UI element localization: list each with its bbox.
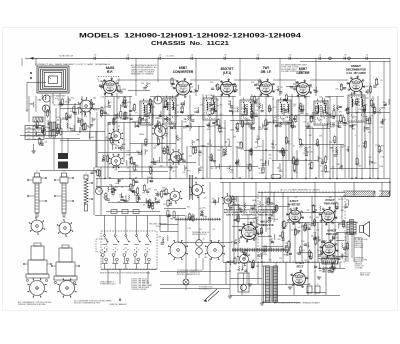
svg-text:100K: 100K (127, 102, 132, 104)
svg-text:5%: 5% (232, 207, 235, 209)
svg-text:470: 470 (141, 83, 144, 85)
svg-text:470: 470 (251, 118, 254, 120)
socket bottom view small A (31, 220, 43, 232)
svg-text:(I.F.1): (I.F.1) (223, 71, 231, 75)
svg-text:220: 220 (272, 107, 275, 109)
transformer T5 3rd IF trans (277, 100, 291, 124)
svg-text:5%: 5% (271, 147, 274, 149)
wire top bus second segment (300, 61, 390, 63)
svg-text:.01: .01 (277, 151, 280, 153)
svg-text:.01: .01 (269, 248, 272, 250)
svg-text:220: 220 (335, 88, 338, 90)
svg-text:.1: .1 (232, 198, 234, 200)
phono socket right (207, 242, 223, 258)
svg-text:.01: .01 (234, 241, 237, 243)
svg-text:220: 220 (218, 126, 221, 128)
svg-text:40: 40 (309, 284, 311, 286)
svg-text:LIMITER: LIMITER (297, 71, 311, 75)
ground antenna section (31, 150, 35, 152)
svg-text:.002: .002 (284, 223, 288, 225)
svg-text:5%: 5% (199, 155, 202, 157)
oscillator coil top (154, 96, 162, 104)
power cord to plug (206, 289, 217, 299)
wire bus y182 right (220, 182, 390, 184)
component clusters antenna block extra (33, 102, 34, 107)
component clusters band 3 (108, 187, 109, 193)
svg-text:.05: .05 (159, 55, 162, 57)
tuning gang rotor front (111, 131, 121, 141)
svg-text:.05: .05 (203, 198, 206, 200)
svg-text:1W: 1W (239, 208, 242, 210)
svg-text:.002: .002 (242, 258, 246, 260)
svg-text:680: 680 (209, 157, 212, 159)
wire bus y212 over switch (106, 211, 160, 213)
svg-text:220: 220 (181, 104, 184, 106)
svg-text:1MEG: 1MEG (257, 146, 263, 148)
oscillator section socket (171, 152, 182, 163)
extra power-area horizontal wires (258, 206, 290, 208)
svg-text:470: 470 (335, 237, 338, 239)
svg-text:100K: 100K (209, 126, 214, 128)
extra power-area vertical wires (233, 196, 235, 262)
output transformer T9 (347, 222, 356, 234)
svg-text:1W: 1W (213, 126, 216, 128)
svg-text:470: 470 (154, 190, 157, 192)
svg-text:RECT: RECT (297, 266, 304, 269)
svg-text:270K: 270K (128, 186, 133, 188)
svg-text:RECORD CHANGER MOTOR: RECORD CHANGER MOTOR (177, 273, 201, 276)
svg-text:POWER 117V 60CY: POWER 117V 60CY (100, 284, 117, 286)
svg-text:680: 680 (328, 117, 331, 119)
switch wafer wires to bus (104, 216, 106, 235)
svg-text:.002: .002 (115, 183, 119, 185)
svg-text:220: 220 (135, 165, 138, 167)
extra mid-band vertical wires (107, 122, 109, 178)
speaker plug P2 (350, 220, 354, 235)
svg-text:PWR AMP: PWR AMP (324, 203, 336, 206)
antenna terminals (30, 72, 32, 74)
svg-text:SWITCH SHOWN IN A.C. POSITION: SWITCH SHOWN IN A.C. POSITION AS VIEWED … (100, 271, 151, 274)
transformer T3 1st IF trans (203, 98, 217, 120)
svg-text:5%: 5% (77, 134, 80, 136)
svg-text:680: 680 (172, 87, 175, 89)
svg-text:270K: 270K (262, 254, 267, 256)
svg-text:PLUG (AC-DC): PLUG (AC-DC) (199, 288, 211, 291)
svg-text:220: 220 (251, 82, 254, 84)
svg-text:.1: .1 (314, 271, 316, 273)
svg-text:6J5GT: 6J5GT (290, 199, 299, 203)
svg-text:ALL D.C. VOLTAGES MEASURED TO: ALL D.C. VOLTAGES MEASURED TO CHASSIS (280, 189, 320, 192)
loop antenna L1 (37, 66, 69, 93)
svg-text:1W: 1W (126, 151, 129, 153)
filter capacitor C60 (307, 286, 312, 293)
wire mid horizontal left (46, 131, 105, 133)
svg-text:1MEG: 1MEG (240, 252, 246, 254)
svg-text:CHASSIS No. 11C21: CHASSIS No. 11C21 (151, 41, 229, 47)
svg-text:.01: .01 (34, 139, 37, 141)
component clusters band 2 (36, 122, 38, 128)
svg-text:680: 680 (120, 178, 123, 180)
svg-text:5%: 5% (342, 207, 345, 209)
svg-text:.01: .01 (305, 115, 308, 117)
svg-text:5%: 5% (317, 250, 320, 252)
svg-text:.01: .01 (136, 126, 139, 128)
svg-text:.1: .1 (146, 194, 148, 196)
svg-text:.01: .01 (319, 55, 322, 57)
svg-text:100K: 100K (362, 143, 367, 145)
svg-text:.1: .1 (222, 149, 224, 151)
svg-text:470: 470 (123, 144, 126, 146)
svg-text:1W: 1W (182, 172, 185, 174)
spoked socket left of tone note (224, 196, 232, 204)
tube V3 6SG7GT (221, 82, 234, 95)
extra mid-band horizontal wires (60, 108, 100, 110)
svg-text:220: 220 (157, 122, 160, 124)
chassis hatch strip far right (379, 190, 390, 192)
svg-text:.01: .01 (265, 209, 268, 211)
wire lower verticals (177, 215, 179, 242)
svg-text:6S8GT: 6S8GT (351, 64, 361, 68)
svg-text:100K: 100K (274, 219, 279, 221)
svg-text:.002: .002 (309, 151, 313, 153)
trimmer tool drawing A (35, 173, 40, 177)
component clusters power area extra (237, 216, 239, 222)
svg-text:100K: 100K (230, 130, 235, 132)
svg-text:.002: .002 (309, 259, 313, 261)
svg-text:680: 680 (91, 137, 94, 139)
svg-text:1MEG: 1MEG (380, 108, 386, 110)
svg-text:5%: 5% (117, 154, 120, 156)
capacitors along top bus (93, 57, 95, 60)
band switch S1 dashed box (101, 231, 157, 269)
svg-text:.1: .1 (251, 264, 253, 266)
filter capacitor C61 (315, 286, 320, 293)
svg-text:470: 470 (148, 125, 151, 127)
svg-text:TO RECORD CH.: TO RECORD CH. (58, 56, 74, 58)
svg-text:1W: 1W (307, 210, 310, 212)
socket bottom view small B (59, 222, 71, 234)
svg-text:220: 220 (71, 98, 74, 100)
dial cord ladder (189, 175, 191, 200)
svg-text:DR. I.F.: DR. I.F. (261, 70, 272, 74)
phono socket left (170, 242, 186, 258)
transformer T7 discriminator trans (348, 95, 365, 122)
svg-text:.01: .01 (194, 108, 197, 110)
svg-text:100K: 100K (108, 189, 113, 191)
svg-text:CONTROL KNOBS: CONTROL KNOBS (131, 289, 147, 291)
speaker field coil (322, 258, 338, 264)
svg-text:1W: 1W (114, 170, 117, 172)
black component block upper (58, 153, 68, 159)
tube V4 7W7 (260, 82, 273, 95)
tube shield can A (34, 243, 41, 246)
svg-text:1W: 1W (211, 159, 214, 161)
svg-text:.05: .05 (138, 198, 141, 200)
svg-text:5%: 5% (346, 200, 349, 202)
svg-text:.05: .05 (117, 126, 120, 128)
svg-text:100K: 100K (258, 129, 263, 131)
svg-text:.002: .002 (154, 146, 158, 148)
ground symbols power area (317, 276, 321, 278)
terminal tick strip (232, 248, 290, 250)
band switch wafers (104, 235, 106, 237)
svg-text:5%: 5% (47, 113, 50, 115)
svg-text:470: 470 (225, 200, 228, 202)
socket below tuning eye (240, 255, 249, 264)
svg-text:220: 220 (217, 150, 220, 152)
component clusters band 2 extra (110, 137, 112, 143)
svg-text:.002: .002 (88, 127, 92, 129)
bus component boxes above switch (111, 210, 117, 214)
svg-text:470: 470 (258, 234, 261, 236)
svg-text:.1: .1 (304, 126, 306, 128)
svg-text:1MEG: 1MEG (112, 144, 118, 146)
svg-text:.01: .01 (143, 205, 146, 207)
svg-text:.002: .002 (294, 196, 298, 198)
svg-text:MODELS 12H090-12H091-12H092-1: MODELS 12H090-12H091-12H092-12H093-12H09… (79, 33, 301, 40)
component clusters left antenna area (61, 99, 63, 105)
speaker SP1 (360, 226, 364, 233)
antenna coupling coil L2 (43, 95, 50, 102)
wire AVC bus (100, 115, 340, 117)
svg-text:.01: .01 (150, 182, 153, 184)
junction dots scattered (129, 114, 130, 115)
hatched connector box (33, 117, 43, 122)
svg-text:270K: 270K (234, 111, 239, 113)
svg-text:220: 220 (100, 111, 103, 113)
chassis hatch strip right (343, 190, 375, 192)
svg-text:.002: .002 (230, 108, 234, 110)
svg-text:680: 680 (170, 218, 173, 220)
transformer T6 4th IF trans (314, 101, 328, 125)
svg-text:5%: 5% (136, 121, 139, 123)
svg-text:3.2 OHMS: 3.2 OHMS (355, 267, 364, 269)
svg-text:.01: .01 (127, 55, 130, 57)
tube V11 5Y3GT (293, 273, 306, 286)
svg-text:UNLESS OTHERWISE SPECIFIED.: UNLESS OTHERWISE SPECIFIED. (18, 304, 47, 306)
svg-text:.1: .1 (327, 123, 329, 125)
svg-text:.01: .01 (57, 99, 60, 101)
svg-text:MEASURED TO CHASSIS.: MEASURED TO CHASSIS. (131, 73, 154, 76)
svg-text:220: 220 (380, 127, 383, 129)
svg-text:.1: .1 (354, 135, 356, 137)
svg-text:100K: 100K (269, 218, 274, 220)
wire main bottom bus y178 (96, 178, 390, 180)
svg-text:100K: 100K (339, 257, 344, 259)
bus inline circle components (329, 57, 332, 60)
svg-text:1W: 1W (316, 229, 319, 231)
svg-text:1MEG: 1MEG (139, 134, 145, 136)
svg-text:5%: 5% (117, 90, 120, 92)
svg-text:5%: 5% (332, 167, 335, 169)
tube V9 6V6GT no.1 (322, 210, 335, 223)
svg-text:.05: .05 (135, 195, 138, 197)
svg-text:450 OHMS: 450 OHMS (355, 247, 364, 249)
svg-text:220: 220 (284, 243, 287, 245)
svg-text:470: 470 (84, 116, 87, 118)
plate link wires between stages (117, 79, 176, 81)
svg-text:270K: 270K (101, 85, 106, 87)
svg-text:.002: .002 (227, 101, 231, 103)
transformer T4 2nd IF trans (240, 100, 254, 124)
svg-text:100K: 100K (122, 89, 127, 91)
svg-text:1MEG: 1MEG (159, 143, 165, 145)
svg-text:100K: 100K (124, 201, 129, 203)
svg-text:MOLDED CONDENSERS A TYPE.: MOLDED CONDENSERS A TYPE. (74, 301, 101, 304)
svg-text:680: 680 (301, 226, 304, 228)
svg-text:A.V.C. 1ST AUDIO: A.V.C. 1ST AUDIO (346, 72, 366, 75)
svg-text:SPEAKER FIELD: SPEAKER FIELD (323, 255, 338, 258)
switch assembly dashed sub-box (96, 239, 107, 252)
svg-text:1MEG: 1MEG (171, 108, 177, 110)
svg-text:.01: .01 (221, 156, 224, 158)
svg-text:220: 220 (304, 260, 307, 262)
svg-text:.05: .05 (101, 161, 104, 163)
svg-text:.1: .1 (166, 99, 168, 101)
transformer T2 osc trans (163, 98, 176, 124)
svg-text:220: 220 (199, 105, 202, 107)
svg-text:1W: 1W (114, 122, 117, 124)
dial chart table (25, 126, 44, 140)
component clusters around tube sockets (102, 82, 103, 87)
svg-text:680: 680 (369, 157, 372, 159)
svg-text:680: 680 (93, 97, 96, 99)
svg-text:1W: 1W (331, 259, 334, 261)
phono coupling coils (196, 240, 203, 247)
svg-text:47: 47 (38, 131, 40, 133)
svg-text:1MEG: 1MEG (278, 171, 284, 173)
svg-text:REMOTE CHANGER: REMOTE CHANGER (109, 303, 127, 306)
wire bus y215 (95, 215, 185, 217)
svg-text:470: 470 (169, 198, 172, 200)
svg-text:1W: 1W (256, 224, 259, 226)
svg-text:270K: 270K (104, 107, 109, 109)
svg-text:.1: .1 (114, 147, 116, 149)
grid link wires y96 (105, 96, 132, 98)
svg-text:.05: .05 (344, 55, 347, 57)
svg-text:1MEG: 1MEG (337, 123, 343, 125)
svg-text:.01: .01 (331, 151, 334, 153)
svg-text:220: 220 (267, 200, 270, 202)
svg-text:.01: .01 (191, 55, 194, 57)
svg-text:.05: .05 (365, 116, 368, 118)
svg-text:20: 20 (317, 284, 319, 286)
svg-text:220: 220 (212, 199, 215, 201)
transformer T1 osc coil (140, 101, 153, 125)
svg-text:5%: 5% (81, 111, 84, 113)
svg-text:270K: 270K (153, 203, 158, 205)
volume control R-vol (96, 188, 103, 195)
svg-text:1W: 1W (255, 110, 258, 112)
svg-text:470: 470 (147, 113, 150, 115)
svg-text:100K: 100K (131, 179, 136, 181)
svg-text:470: 470 (216, 106, 219, 108)
svg-text:.1: .1 (245, 105, 247, 107)
svg-text:.1: .1 (266, 125, 268, 127)
svg-text:5%: 5% (188, 217, 191, 219)
svg-text:.002: .002 (259, 85, 263, 87)
rf coil gear assembly (80, 100, 92, 112)
svg-text:470: 470 (45, 127, 48, 129)
svg-text:.01: .01 (170, 122, 173, 124)
svg-text:1MEG: 1MEG (56, 124, 62, 126)
svg-text:.05: .05 (127, 167, 130, 169)
svg-text:.01: .01 (374, 109, 377, 111)
svg-text:.1: .1 (373, 104, 375, 106)
svg-text:270K: 270K (313, 237, 318, 239)
svg-text:1W: 1W (212, 229, 215, 231)
svg-text:.002: .002 (262, 249, 266, 251)
svg-text:270K: 270K (56, 117, 61, 119)
svg-text:.01: .01 (234, 86, 237, 88)
svg-text:.05: .05 (298, 227, 301, 229)
tube base diagram A (30, 281, 45, 296)
tube base diagram B (60, 281, 75, 296)
svg-text:INVERTER: INVERTER (288, 204, 301, 207)
svg-text:.002: .002 (148, 189, 152, 191)
component clusters band 1 (101, 108, 103, 114)
rf coil dashed box above V1 (98, 77, 119, 82)
svg-text:.05: .05 (199, 208, 202, 210)
svg-text:1MEG: 1MEG (332, 126, 338, 128)
svg-text:1MEG: 1MEG (283, 255, 289, 257)
svg-text:680: 680 (269, 154, 272, 156)
svg-text:5%: 5% (312, 205, 315, 207)
svg-text:470: 470 (330, 148, 333, 150)
tube V5 6SH7 (297, 83, 310, 96)
svg-text:.05: .05 (380, 80, 383, 82)
svg-text:100K: 100K (190, 114, 195, 116)
antenna terminal arrow (30, 57, 34, 60)
svg-text:220: 220 (105, 198, 108, 200)
svg-text:1W: 1W (209, 145, 212, 147)
svg-text:100K: 100K (147, 177, 152, 179)
svg-text:220: 220 (92, 104, 95, 106)
svg-text:.05: .05 (224, 55, 227, 57)
svg-text:.05: .05 (280, 87, 283, 89)
svg-text:470: 470 (180, 108, 183, 110)
svg-text:.01: .01 (358, 145, 361, 147)
svg-text:C-3: C-3 (28, 138, 31, 140)
svg-text:DISCRIMINATOR: DISCRIMINATOR (346, 69, 366, 72)
fuse holder box (238, 273, 249, 292)
svg-text:.002: .002 (124, 105, 128, 107)
svg-text:.1: .1 (384, 105, 386, 107)
antenna transformer winding (49, 122, 52, 137)
svg-text:.01: .01 (327, 108, 330, 110)
svg-text:.05: .05 (289, 55, 292, 57)
svg-text:470: 470 (308, 147, 311, 149)
svg-text:1MEG: 1MEG (113, 118, 119, 120)
wire top B+ bus (30, 57, 390, 59)
svg-text:PART 50A40: PART 50A40 (360, 274, 370, 277)
svg-text:470: 470 (256, 139, 259, 141)
wire antenna leads (35, 58, 37, 66)
svg-text:1W: 1W (335, 209, 338, 211)
svg-text:680: 680 (149, 203, 152, 205)
svg-text:220: 220 (310, 226, 313, 228)
wire lower horizontals (258, 192, 345, 194)
svg-text:.01: .01 (272, 99, 275, 101)
tube shield can B (62, 245, 69, 248)
svg-text:.01: .01 (319, 165, 322, 167)
svg-text:1W: 1W (128, 190, 131, 192)
svg-text:470: 470 (125, 118, 128, 120)
svg-text:.01: .01 (241, 227, 244, 229)
tuning gang rotor rear (111, 156, 121, 166)
tube V10 6V6GT no.2 (323, 243, 336, 256)
svg-text:.01: .01 (257, 55, 260, 57)
